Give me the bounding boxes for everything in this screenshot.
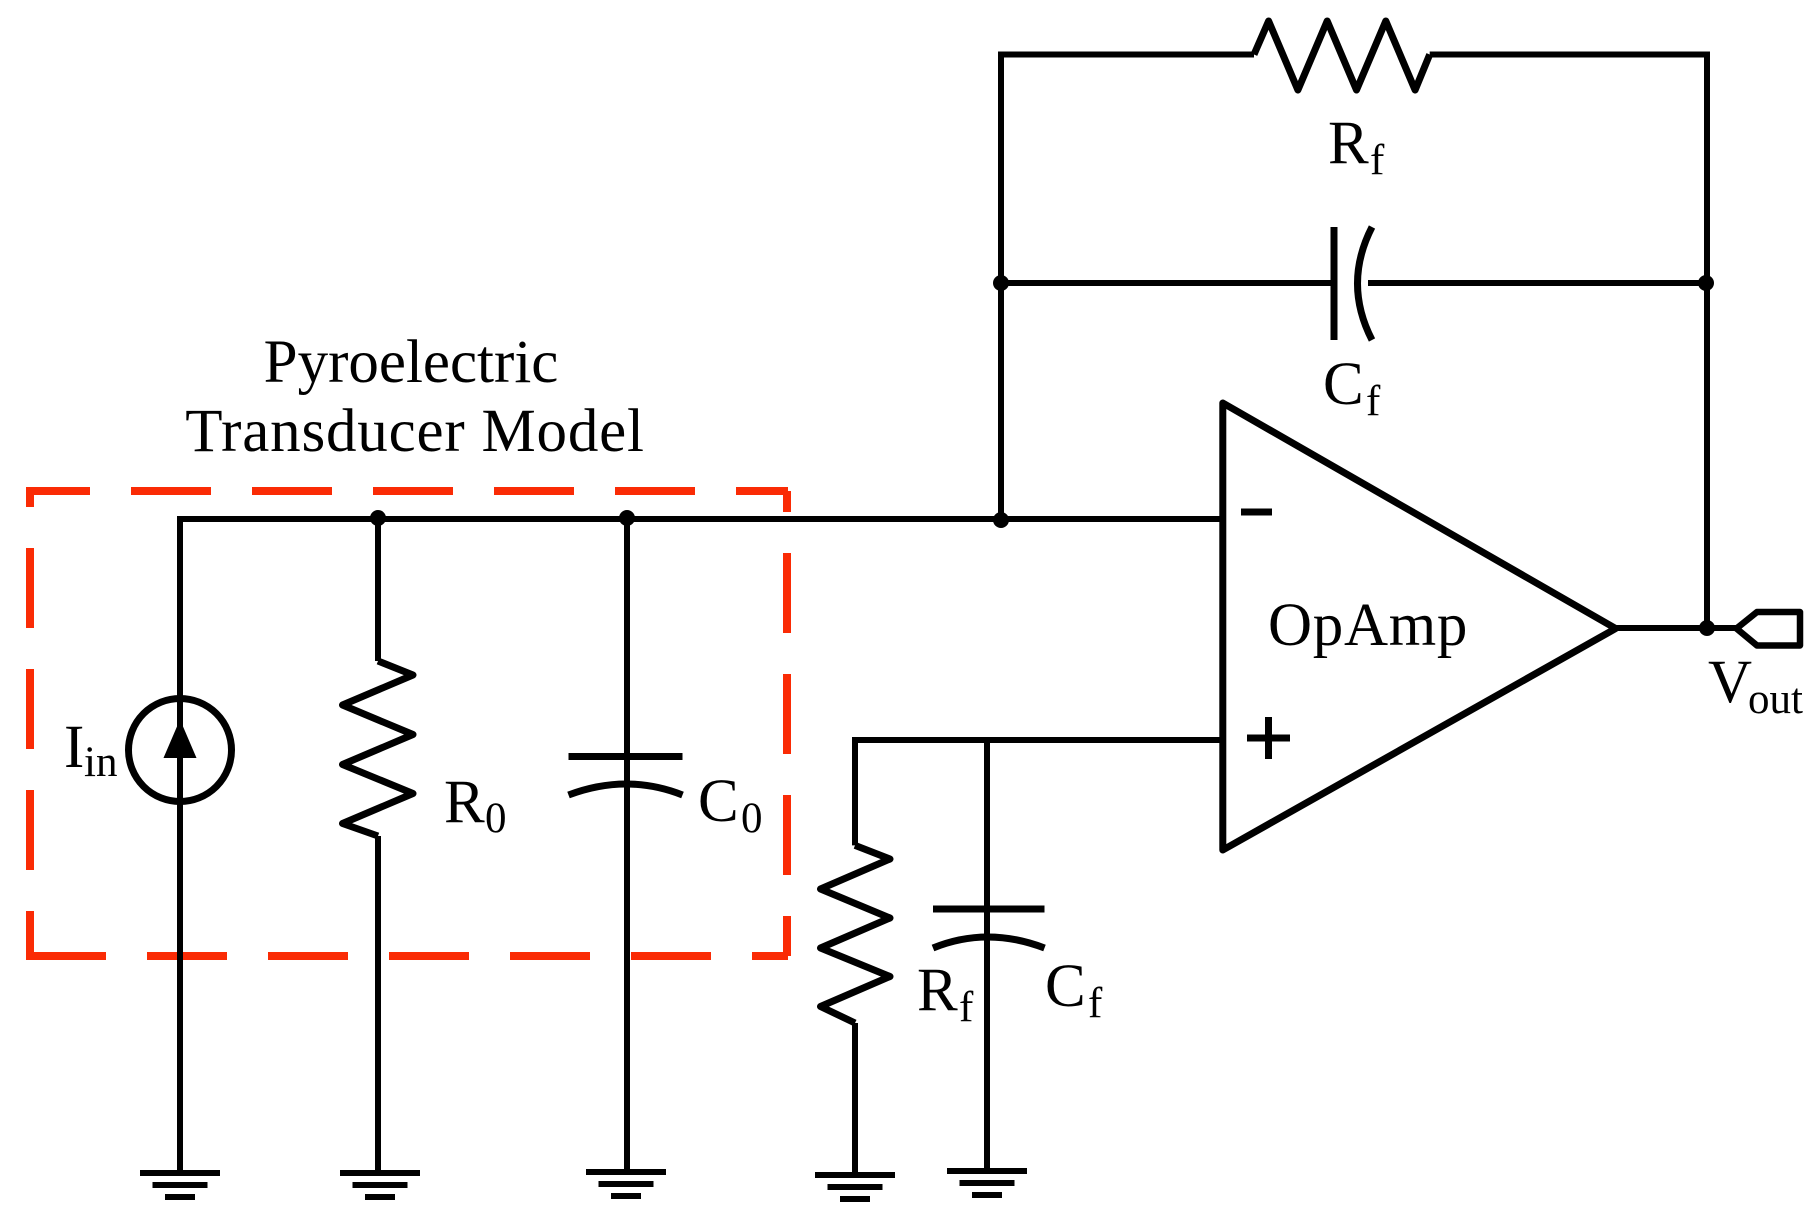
wire: feedback left vertical and top-left horizontal [1001, 55, 1254, 521]
current source Iin [129, 699, 232, 802]
wire: op-amp output lead [1616, 625, 1737, 631]
op-amp non-inverting input marker (plus) [1247, 717, 1290, 759]
wire: non-inverting input lead with corner down [855, 740, 1223, 845]
wire: feedback capacitor left lead [1001, 280, 1334, 286]
label Cf (feedback capacitor) [1323, 351, 1381, 425]
op-amp inverting input marker (minus) [1241, 509, 1272, 516]
svg-text:in: in [84, 739, 117, 786]
svg-text:f: f [1366, 378, 1381, 425]
label Vout [1708, 649, 1803, 723]
svg-text:OpAmp: OpAmp [1268, 592, 1468, 659]
label Iin [64, 714, 117, 786]
svg-text:I: I [64, 714, 84, 781]
junction dot: feedback capacitor right tap [1698, 275, 1714, 291]
svg-text:C: C [1045, 953, 1086, 1020]
wire: R0 branch upper [375, 519, 381, 661]
wire: Rf ground leg lower [852, 1023, 858, 1174]
svg-text:0: 0 [485, 795, 507, 842]
svg-text:f: f [1370, 137, 1385, 184]
wire: R0 branch lower [375, 836, 381, 1172]
label C0 [698, 768, 763, 842]
wire: feedback capacitor right lead [1368, 280, 1707, 286]
svg-text:f: f [1088, 980, 1103, 1027]
svg-text:R: R [917, 957, 958, 1024]
wire: main input node (current source top to op-amp inverting input) [180, 516, 1223, 522]
ground (R0 branch) [340, 1173, 420, 1197]
resistor Rf (feedback) [1254, 21, 1430, 90]
svg-text:V: V [1708, 649, 1752, 716]
ground (Rf leg) [815, 1175, 895, 1199]
junction dot: feedback capacitor left tap [993, 275, 1009, 291]
svg-text:R: R [1328, 110, 1369, 177]
label Rf (non-inverting ground leg) [917, 957, 974, 1031]
svg-text:0: 0 [741, 795, 763, 842]
junction dot: inverting input node / feedback tap [993, 512, 1009, 528]
wire: Cf ground leg vertical (runs through capacitor) [984, 740, 990, 1171]
capacitor C0 [569, 757, 683, 796]
ground (C0 branch) [586, 1172, 666, 1196]
svg-text:Pyroelectric: Pyroelectric [264, 329, 559, 396]
svg-text:C: C [698, 768, 739, 835]
output terminal Vout flag [1737, 612, 1801, 646]
svg-text:f: f [959, 984, 974, 1031]
wire: feedback top-right horizontal and right vertical [1430, 55, 1707, 629]
resistor Rf (non-inverting ground leg) [821, 845, 891, 1023]
label Rf (feedback resistor) [1328, 110, 1385, 184]
junction dot: output node [1699, 620, 1715, 636]
svg-text:out: out [1748, 676, 1803, 723]
ground (Cf leg) [947, 1171, 1027, 1195]
ground (current source branch) [140, 1173, 220, 1197]
svg-text:Transducer Model: Transducer Model [185, 398, 645, 465]
op-amp U1 triangle [1223, 403, 1616, 850]
dashed box: pyroelectric transducer model boundary [26, 488, 788, 956]
svg-text:C: C [1323, 351, 1364, 418]
label R0 [444, 769, 507, 842]
label: Pyroelectric Transducer Model title [185, 329, 645, 465]
wire: C0 branch vertical (runs through capacitor) [624, 519, 630, 1171]
capacitor Cf (non-inverting ground leg) [933, 909, 1045, 948]
junction dot: C0 tap on input node [619, 510, 635, 526]
resistor R0 [343, 661, 414, 836]
svg-text:R: R [444, 769, 485, 836]
wire: current source branch vertical [177, 516, 183, 1172]
capacitor Cf (feedback) [1334, 227, 1372, 340]
label Cf (non-inverting ground leg) [1045, 953, 1103, 1027]
junction dot: R0 tap on input node [370, 510, 386, 526]
